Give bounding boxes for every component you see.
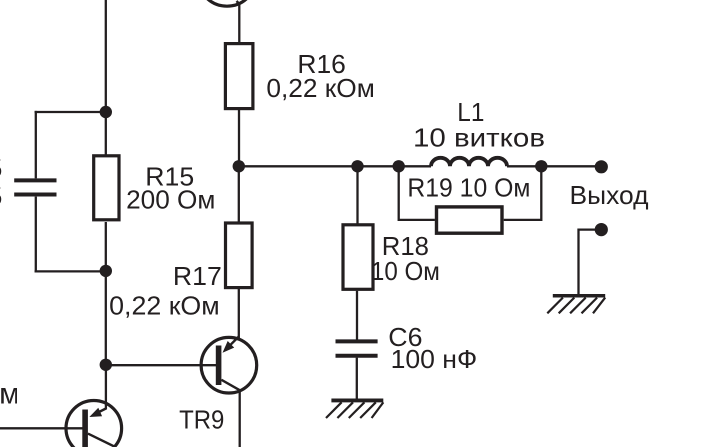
wire bus to R17 bbox=[238, 166, 240, 222]
junction node dots bbox=[100, 106, 608, 371]
wire top transistor emitter lead bbox=[238, 2, 240, 43]
svg-text:0,22 кОм: 0,22 кОм bbox=[109, 291, 220, 321]
node at R15 top bbox=[100, 106, 112, 118]
transistor TR9 bbox=[201, 337, 257, 394]
wire top left vertical into node bbox=[105, 0, 107, 112]
svg-text:TR9: TR9 bbox=[179, 405, 224, 435]
resistor R18 bbox=[343, 225, 373, 289]
svg-text:10 витков: 10 витков bbox=[413, 123, 545, 153]
ground at output bbox=[547, 296, 605, 314]
wire R15 top lead bbox=[105, 112, 107, 155]
wire TR9 base from node bbox=[106, 364, 216, 366]
svg-text:10 Ом: 10 Ом bbox=[371, 256, 440, 286]
node bus at L1 right bbox=[535, 160, 547, 172]
wire C5 top lead bbox=[35, 111, 37, 178]
capacitor C6 bbox=[336, 341, 378, 355]
transistor TR8 bottom left bbox=[66, 401, 122, 447]
wire R19 left loop bbox=[399, 166, 435, 220]
node bus at L1 left bbox=[393, 160, 405, 172]
ground under C6 bbox=[326, 400, 383, 418]
resistor R17 bbox=[226, 223, 253, 288]
resistor R16 bbox=[225, 44, 253, 109]
svg-text:200 Ом: 200 Ом bbox=[126, 185, 215, 215]
label cut value at left edge bbox=[0, 378, 20, 411]
svg-text:100 нФ: 100 нФ bbox=[391, 344, 478, 374]
transistor TR8-top partial circle bbox=[198, 0, 257, 6]
node bus at R18 bbox=[351, 160, 363, 172]
wire bus inductor to output bbox=[507, 165, 601, 167]
svg-text:R17: R17 bbox=[173, 261, 222, 291]
transistor TR8-top emitter diagonal bbox=[237, 1, 240, 4]
resistor R19 bbox=[437, 207, 503, 233]
node at TR9 base bbox=[100, 359, 112, 371]
wire main bus horizontal bbox=[239, 165, 431, 167]
svg-text:Выход: Выход bbox=[570, 180, 649, 210]
node bus at R16 bbox=[233, 160, 245, 172]
svg-text:5: 5 bbox=[0, 181, 2, 211]
wire R18 to C6 bbox=[356, 291, 358, 340]
wire TR8 base from left edge bbox=[0, 427, 83, 429]
wire R16 bottom to bus bbox=[238, 110, 240, 166]
wire R19 right loop bbox=[504, 166, 542, 220]
wire C5 to node horizontal bbox=[35, 270, 106, 272]
wire left column down to TR8 bbox=[105, 365, 107, 410]
node at R15 bottom bbox=[100, 265, 112, 277]
wire R15 bottom lead bbox=[105, 222, 107, 271]
svg-text:R19 10 Ом: R19 10 Ом bbox=[407, 173, 530, 203]
node output terminal upper bbox=[595, 160, 608, 173]
resistor R15 bbox=[94, 156, 119, 220]
wire output lower terminal to ground bbox=[579, 230, 602, 295]
wire R17 to TR9 collector bbox=[238, 289, 240, 340]
wire C6 to ground bbox=[356, 358, 358, 399]
wire node to C5 branch horizontal bbox=[35, 111, 106, 113]
inductor L1 bbox=[431, 158, 507, 167]
wire bus to R18 bbox=[356, 166, 358, 223]
capacitor C5 bbox=[14, 180, 56, 194]
label C5 clipped at left edge bbox=[0, 153, 2, 211]
wire node to node left column bbox=[105, 271, 107, 364]
svg-text:0,22 кОм: 0,22 кОм bbox=[266, 73, 374, 103]
wire TR9 emitter down bbox=[239, 390, 241, 447]
node output terminal lower bbox=[595, 223, 608, 236]
wire C5 bottom lead bbox=[35, 197, 37, 273]
